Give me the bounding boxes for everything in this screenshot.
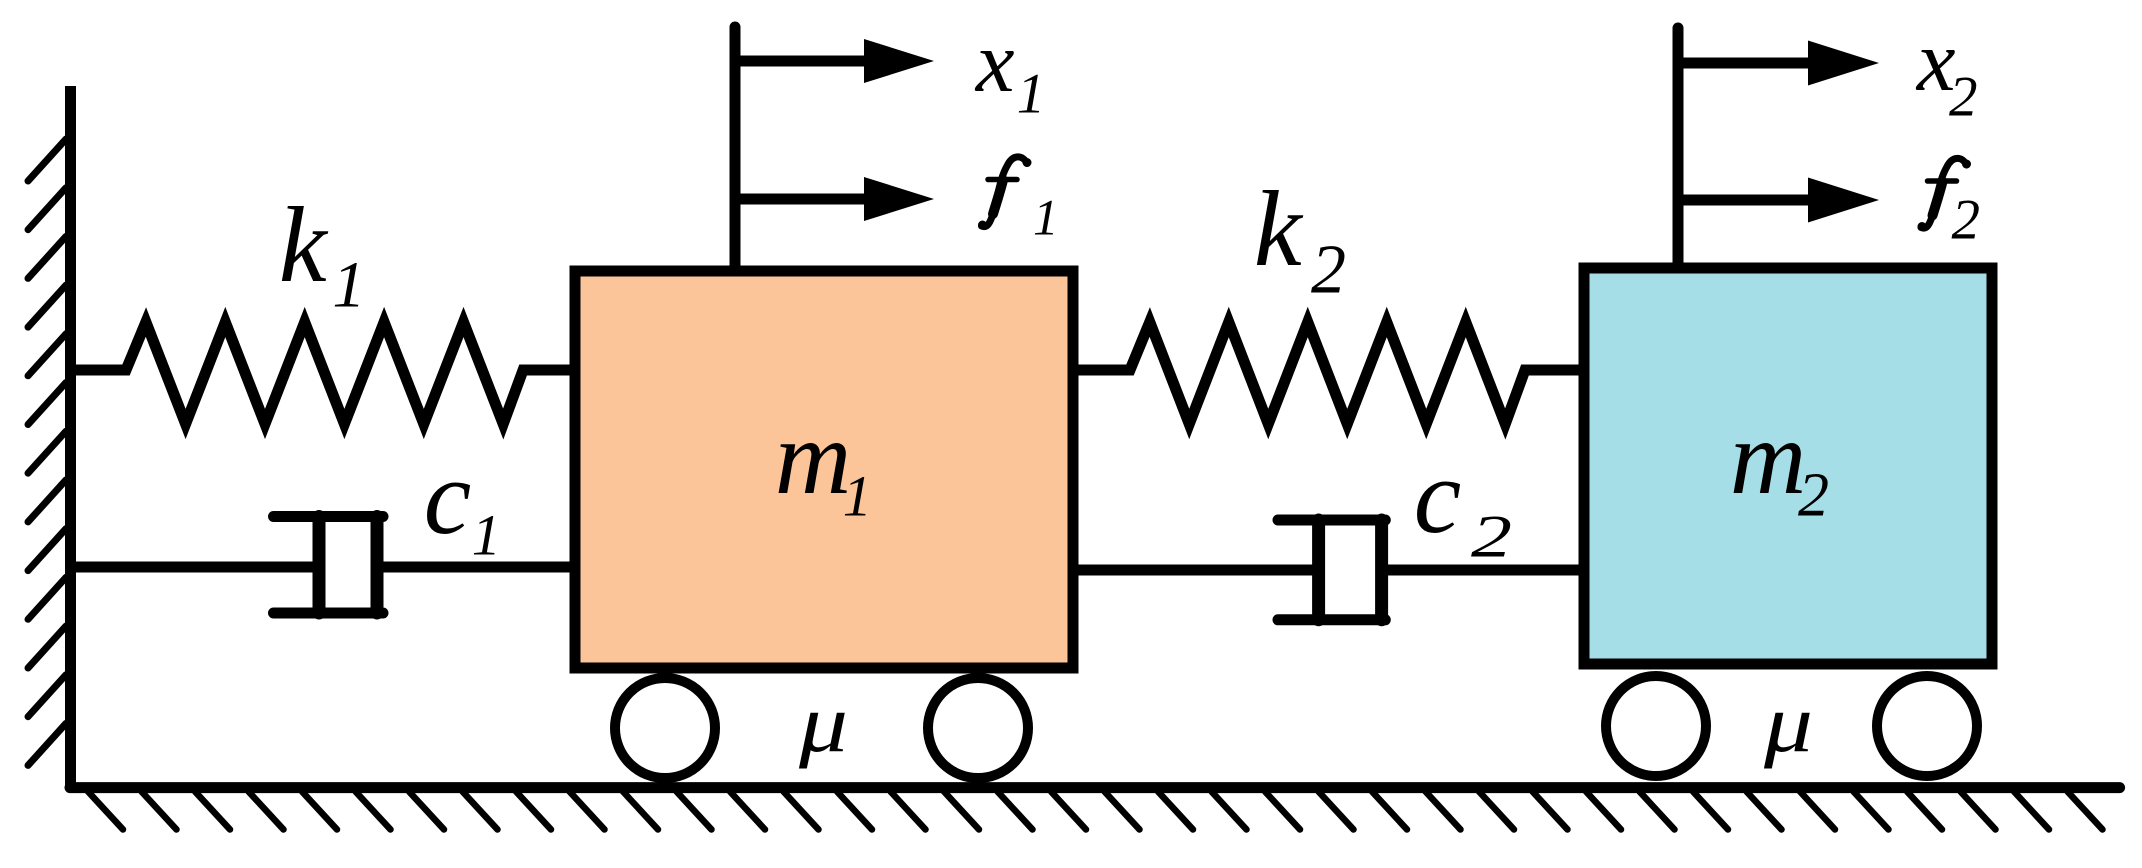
pole m1 bbox=[730, 27, 741, 271]
damper c1 body bbox=[274, 517, 384, 614]
label f2 bbox=[1921, 158, 1967, 228]
wheel m1 left bbox=[615, 678, 715, 778]
svg-text:2: 2 bbox=[1471, 504, 1512, 570]
svg-text:2: 2 bbox=[1798, 462, 1829, 530]
spring k2 bbox=[1073, 322, 1584, 424]
svg-text:μ: μ bbox=[1763, 677, 1813, 769]
wheel m2 right bbox=[1877, 676, 1977, 776]
mass m2 bbox=[1584, 268, 1992, 664]
damper c2 rod left bbox=[1073, 565, 1319, 576]
arrow f2 bbox=[1678, 178, 1879, 223]
wheel m1 right bbox=[928, 678, 1028, 778]
svg-text:m: m bbox=[775, 399, 852, 516]
ground hatching bbox=[88, 792, 2103, 830]
arrow f1 bbox=[735, 177, 934, 221]
svg-text:c: c bbox=[424, 439, 472, 557]
svg-text:2: 2 bbox=[1949, 66, 1978, 129]
svg-text:c: c bbox=[1414, 438, 1462, 556]
svg-text:μ: μ bbox=[798, 677, 848, 769]
label f1 bbox=[982, 157, 1028, 227]
arrow x1 bbox=[735, 39, 934, 83]
svg-text:2: 2 bbox=[1311, 232, 1346, 309]
damper c1 rod left bbox=[70, 562, 319, 573]
svg-text:m: m bbox=[1730, 399, 1807, 516]
damper c1 rod right bbox=[377, 562, 575, 573]
svg-text:1: 1 bbox=[1017, 63, 1045, 126]
svg-text:1: 1 bbox=[332, 249, 365, 322]
mass m1 bbox=[575, 271, 1073, 668]
svg-text:k: k bbox=[1254, 170, 1304, 289]
wheel m2 left bbox=[1606, 676, 1706, 776]
ground line bbox=[70, 782, 2120, 793]
arrow x2 bbox=[1678, 41, 1879, 86]
svg-text:2: 2 bbox=[1952, 189, 1981, 252]
svg-text:x: x bbox=[974, 13, 1015, 110]
svg-text:1: 1 bbox=[843, 463, 872, 528]
wall hatching bbox=[28, 139, 66, 765]
wall bbox=[65, 86, 76, 789]
pole m2 bbox=[1673, 28, 1684, 268]
svg-text:1: 1 bbox=[472, 502, 501, 567]
damper c2 body bbox=[1278, 520, 1385, 620]
damper c2 rod right bbox=[1382, 565, 1584, 576]
svg-text:1: 1 bbox=[1033, 191, 1059, 247]
spring k1 bbox=[70, 322, 575, 424]
svg-text:k: k bbox=[279, 186, 329, 305]
